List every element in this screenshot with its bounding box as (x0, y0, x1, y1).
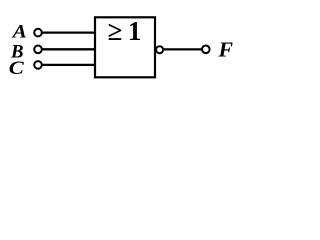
OR gate body U1 (95, 17, 155, 77)
wire input B (40, 48, 95, 50)
svg-text:C: C (9, 58, 24, 79)
input terminal circle C (34, 61, 42, 69)
svg-text:A: A (12, 21, 27, 42)
wire input A (40, 31, 95, 33)
wire input C (40, 64, 95, 66)
wire output (163, 48, 202, 50)
output terminal circle (202, 46, 210, 54)
output inversion bubble (156, 46, 163, 53)
svg-text:F: F (217, 37, 233, 61)
input terminal circle A (34, 29, 42, 37)
svg-text:≥ 1: ≥ 1 (108, 16, 142, 46)
input terminal circle B (34, 46, 42, 54)
